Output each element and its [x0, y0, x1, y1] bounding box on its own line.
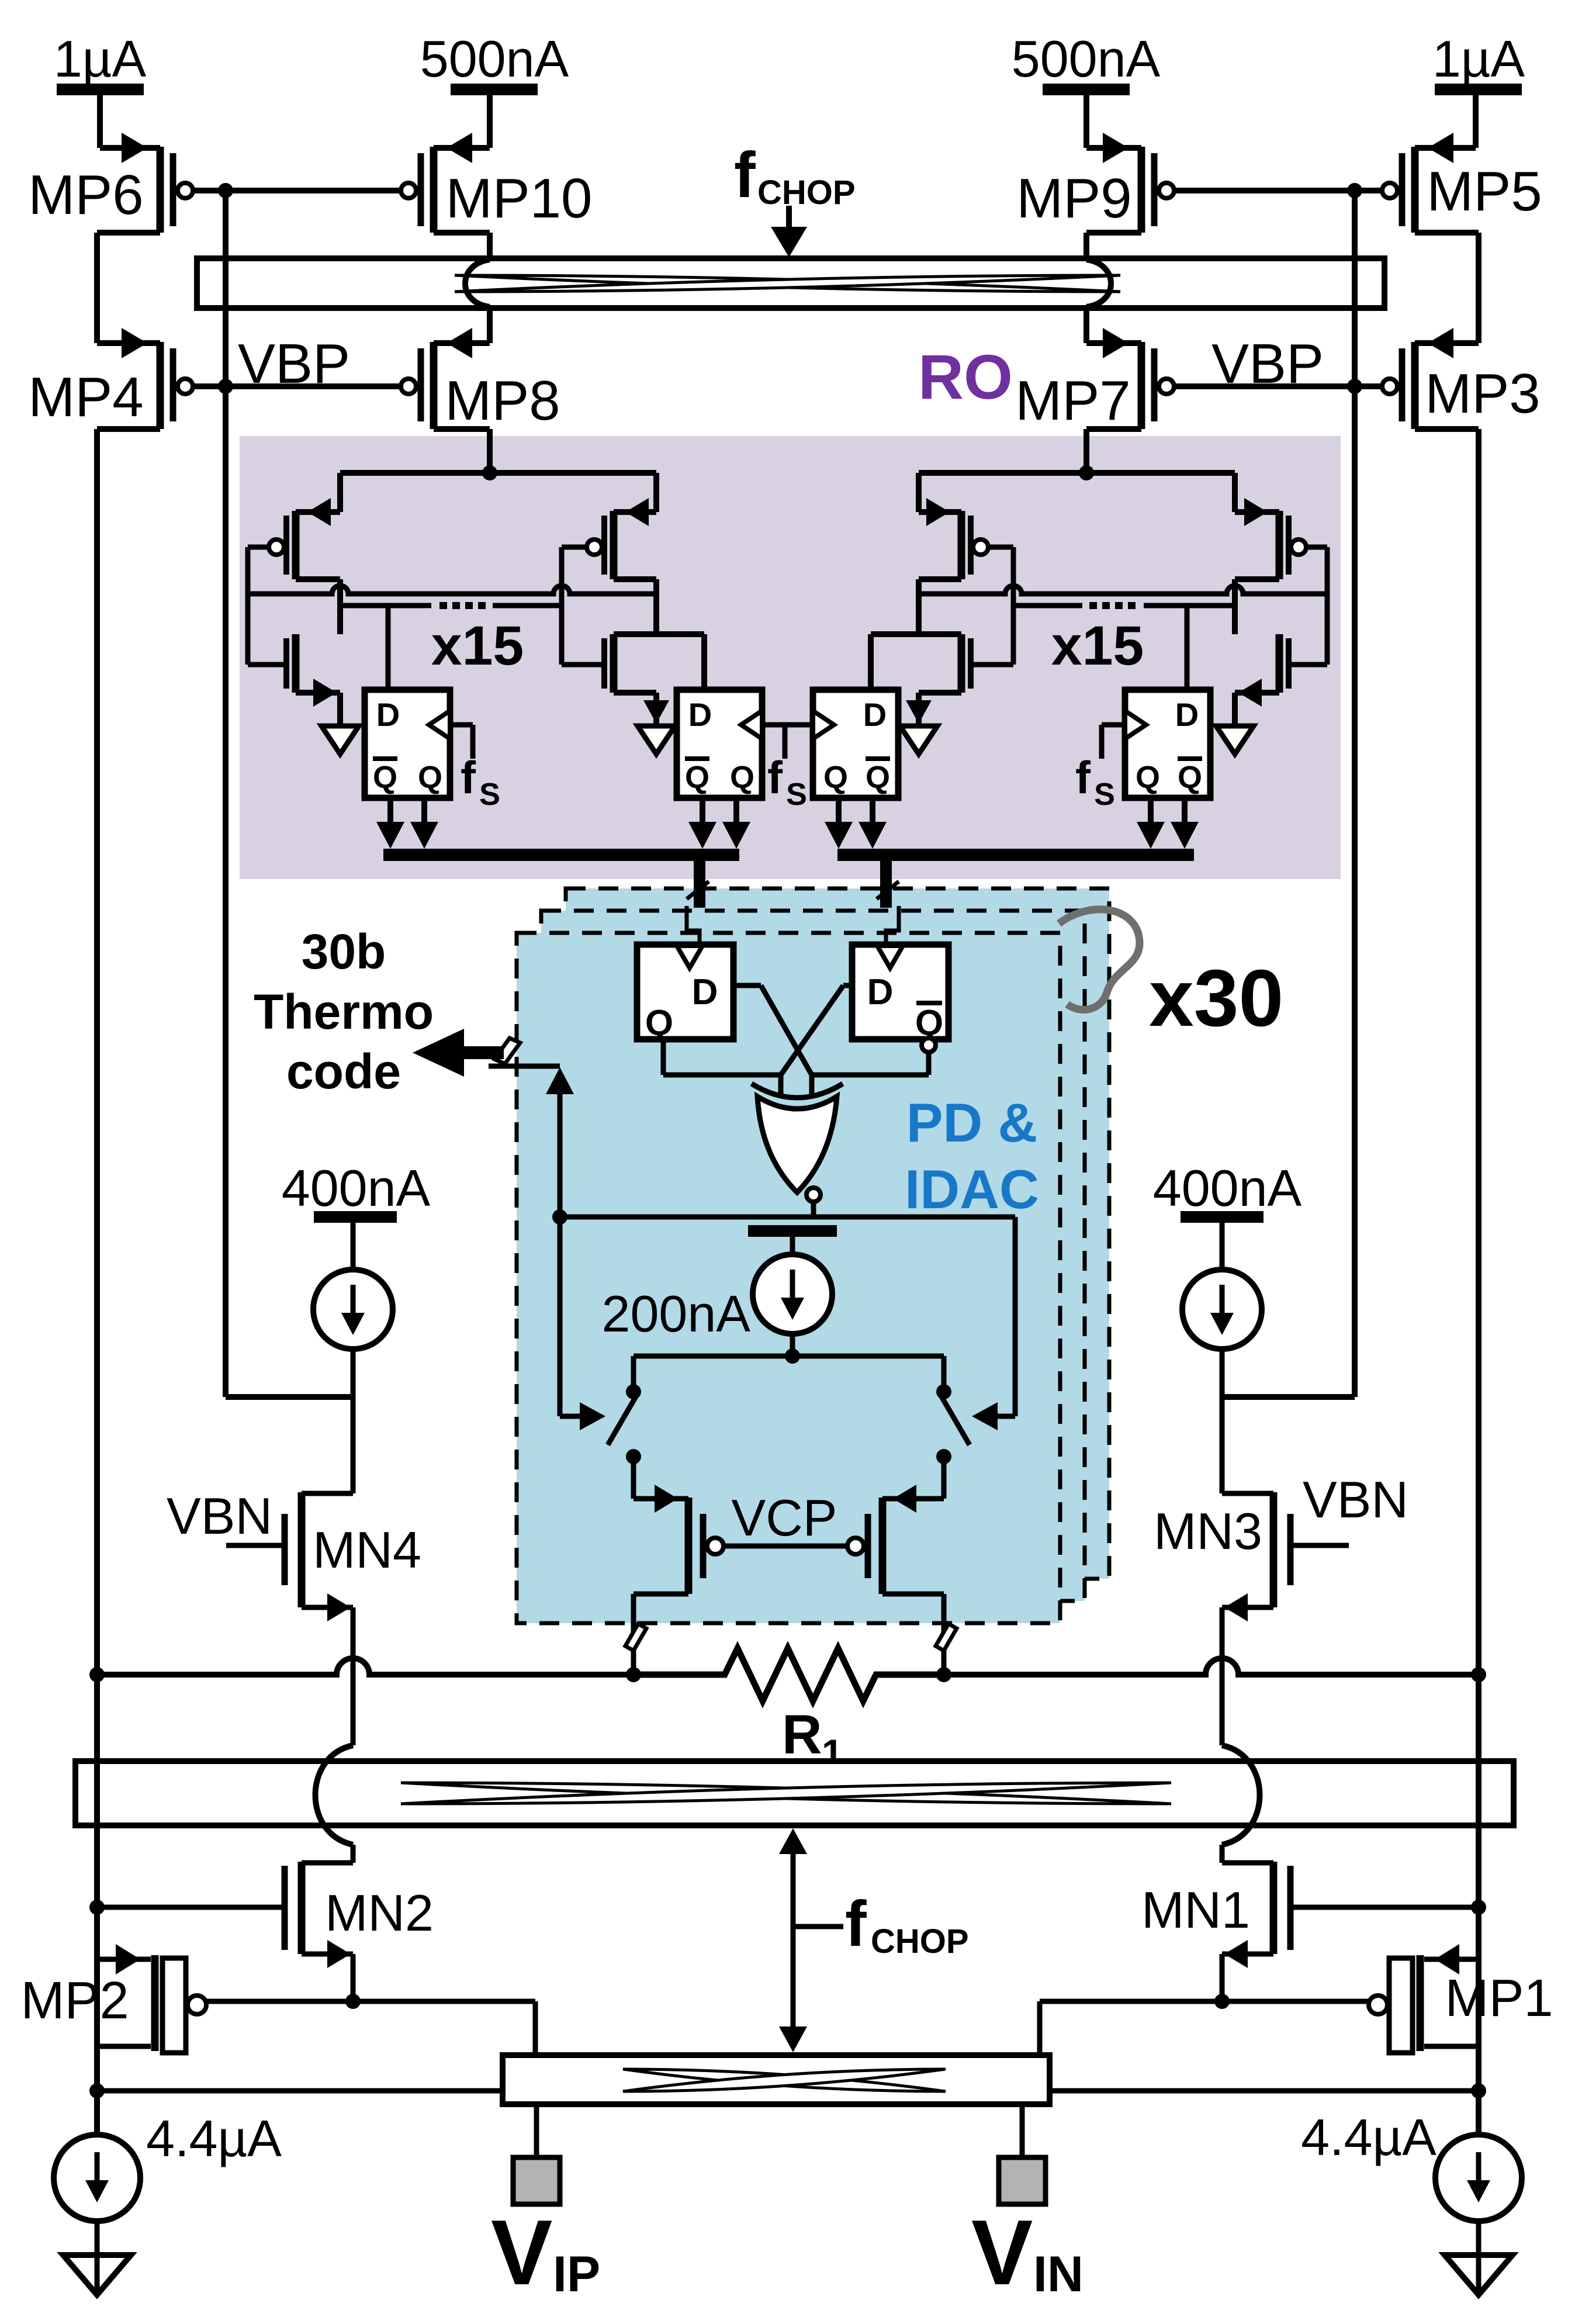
- VBP net right with junction: [1174, 383, 1382, 389]
- svg-text:MP2: MP2: [20, 1972, 129, 2030]
- inv2r NMOS source arrow: [906, 700, 932, 724]
- MP1 source wire from rail: [1424, 1957, 1479, 1962]
- transistor MP6: [157, 147, 164, 233]
- svg-text:RO: RO: [918, 341, 1013, 412]
- PD flip-flop box: [852, 945, 949, 1039]
- transistor MN3: [1270, 1492, 1278, 1607]
- PD and IDAC stacked dashed box 3 (back): [566, 888, 1109, 1579]
- transistor MP8: [430, 342, 438, 429]
- svg-text:MP6: MP6: [28, 164, 143, 226]
- svg-text:MP1: MP1: [1445, 1969, 1553, 2028]
- svg-text:MP7: MP7: [1015, 369, 1130, 432]
- wire to 400nA right source: [1220, 1223, 1225, 1271]
- RO inverter PMOS: [292, 511, 300, 579]
- MP8 source arrow: [446, 328, 472, 358]
- VCP right source arrow: [893, 1485, 916, 1513]
- svg-text:VBP: VBP: [1211, 333, 1324, 395]
- R1 row wire left with hop: [97, 1658, 634, 1675]
- svg-text:1µA: 1µA: [54, 30, 147, 88]
- transistor MN1: [1270, 1862, 1278, 1954]
- svg-text:CHOP: CHOP: [871, 1922, 969, 1960]
- bus stub to FF_A clock: [694, 861, 705, 908]
- inv1r NMOS source arrow: [1238, 679, 1262, 707]
- MN3 source down to chopper hop: [1220, 1607, 1225, 1745]
- MP2 gate net to input chopper: [206, 1999, 535, 2004]
- inv2r NMOS drain lead to FF3 D: [871, 631, 961, 637]
- current source 4.4uA right: [1435, 2135, 1522, 2221]
- thermo bus slash: [494, 1038, 520, 1064]
- chopper hop arc right: [1086, 260, 1111, 307]
- svg-text:Q: Q: [418, 760, 442, 795]
- wire 200nA to switch rail: [790, 1334, 795, 1356]
- wire left switch to VCP left source: [631, 1457, 636, 1499]
- svg-text:MN3: MN3: [1154, 1502, 1262, 1560]
- svg-text:D: D: [376, 696, 400, 733]
- current source 200nA: [753, 1254, 832, 1334]
- RO inverter PMOS: [610, 511, 618, 579]
- RO inverter NMOS: [610, 634, 618, 693]
- bias line right through chopper: [1352, 258, 1358, 308]
- svg-text:PD &: PD &: [906, 1092, 1038, 1153]
- wire MP9 drain into chopper hop: [1086, 230, 1141, 236]
- svg-text:V: V: [971, 2201, 1033, 2304]
- svg-text:MP9: MP9: [1016, 167, 1131, 230]
- RO inverter input wire: [988, 545, 1013, 550]
- flip-flop clock triangle: [813, 711, 834, 739]
- wire MP3 drain down right rail: [1415, 426, 1479, 432]
- transistor MN4: [298, 1492, 306, 1607]
- svg-text:D: D: [1175, 696, 1199, 733]
- flip-flop clock triangle: [429, 711, 450, 739]
- wire to VIN pad: [1020, 2104, 1025, 2157]
- MN4 gate stub VBN: [226, 1543, 282, 1548]
- svg-text:V: V: [491, 2201, 552, 2304]
- RO inverter PMOS drain lead: [296, 576, 340, 582]
- svg-text:IDAC: IDAC: [905, 1158, 1039, 1220]
- RO right feedback line with hops: [919, 586, 1327, 594]
- supply bar 400nA right: [1181, 1211, 1264, 1223]
- FF2 output wires and arrows: [700, 798, 705, 824]
- svg-text:Q: Q: [1136, 760, 1160, 795]
- FF3 output wires and arrows: [836, 798, 842, 824]
- RO inverter PMOS source lead: [1232, 473, 1238, 512]
- ground right: [1445, 2255, 1512, 2295]
- transistor MP10: [430, 147, 438, 233]
- R1 row wire right with hop: [944, 1658, 1479, 1675]
- svg-text:R: R: [782, 1704, 822, 1766]
- MN1 source arrow: [1224, 1940, 1248, 1968]
- gate net MP6-MP10 with junction: [193, 188, 401, 193]
- right rail through chopper: [1476, 1758, 1481, 1828]
- RO inverter ground: [900, 726, 937, 754]
- svg-text:S: S: [1094, 777, 1115, 812]
- MN2 source arrow: [327, 1940, 351, 1968]
- RO inverter NMOS: [958, 634, 965, 693]
- svg-text:Q: Q: [685, 760, 709, 795]
- FF1 clock stub fS: [450, 722, 473, 728]
- input chopper box: [503, 2055, 1050, 2104]
- flip-flop box: [677, 690, 762, 798]
- wire 400nA right to MN3 drain: [1220, 1349, 1225, 1493]
- MP1 gate net to input chopper: [1040, 1999, 1369, 2004]
- transistor VCP left: [685, 1498, 693, 1594]
- current source 4.4uA left: [54, 2135, 140, 2221]
- wire right switch to VCP right source: [941, 1457, 947, 1499]
- RO inverter PMOS drain lead: [1235, 576, 1279, 582]
- RO left chain line with dots: [340, 603, 431, 608]
- RO inverter input wire: [248, 545, 269, 550]
- wire MP10 source from 500nA bar: [487, 95, 493, 148]
- MP2 source wire from rail: [97, 1957, 151, 1962]
- thermo output up arrow: [546, 1067, 574, 1094]
- PD FF B Qbar bubble: [922, 1038, 936, 1052]
- PD cross-coupling net 1: [661, 1039, 666, 1075]
- gate net MP9-MP5 with junction: [1174, 188, 1382, 193]
- svg-text:30b: 30b: [302, 924, 386, 979]
- RO inverter NMOS source lead to ground: [296, 690, 340, 696]
- svg-text:MN1: MN1: [1141, 1881, 1250, 1939]
- wire 4.4uA left to ground: [95, 2221, 100, 2290]
- RO inverter ground: [321, 726, 359, 754]
- svg-text:Thermo: Thermo: [254, 984, 434, 1039]
- MN3 gate stub VBN: [1293, 1543, 1349, 1548]
- bus stub to FF_B clock: [880, 861, 892, 908]
- VCP left drain bus slash: [625, 1624, 646, 1651]
- MN4 source arrow: [327, 1593, 351, 1621]
- svg-text:4.4µA: 4.4µA: [146, 2109, 282, 2167]
- RO right chain line with dots: [1013, 603, 1082, 608]
- transistor MP2: [151, 1955, 159, 2051]
- flip-flop box: [813, 690, 898, 798]
- svg-text:D: D: [692, 972, 718, 1012]
- svg-text:500nA: 500nA: [1012, 30, 1161, 88]
- right rail to input chopper side: [1050, 2088, 1479, 2094]
- RO inverter NMOS: [292, 634, 300, 693]
- supply bar 500nA left: [451, 84, 538, 95]
- svg-text:Q: Q: [730, 760, 754, 795]
- switch rail: [634, 1354, 944, 1359]
- svg-text:400nA: 400nA: [1153, 1159, 1302, 1217]
- transistor MP4: [157, 342, 164, 429]
- MP7 source arrow: [1103, 328, 1129, 358]
- MP1 drain wire to rail: [1424, 2044, 1479, 2049]
- pad VIN: [999, 2157, 1046, 2204]
- wire MP5 source from 1uA bar: [1473, 95, 1479, 148]
- FF4 D input wire: [1185, 606, 1190, 690]
- MN1 source wire: [1222, 1952, 1273, 1957]
- svg-text:D: D: [688, 696, 712, 733]
- PD cross-coupling net 2: [926, 1052, 932, 1075]
- flip-flop box: [1125, 690, 1210, 798]
- MN2 source down to gate net: [351, 1954, 356, 2001]
- left switch control wire: [558, 1217, 563, 1416]
- svg-text:500nA: 500nA: [420, 30, 569, 88]
- XOR output bubble: [806, 1188, 821, 1202]
- MP2 source arrow: [116, 1944, 140, 1974]
- right switch: [941, 1356, 947, 1386]
- svg-text:CHOP: CHOP: [757, 174, 856, 212]
- wire MP4 drain down left rail: [97, 426, 160, 432]
- RO inverter PMOS: [958, 511, 965, 579]
- svg-text:MP5: MP5: [1427, 160, 1542, 223]
- MP3 source arrow: [1428, 328, 1453, 358]
- thermo code output wire: [489, 1064, 560, 1069]
- RO inverter NMOS source lead to ground: [919, 690, 961, 696]
- inv2 NMOS source arrow: [643, 700, 669, 724]
- svg-text:Q: Q: [373, 760, 397, 795]
- wire to 400nA left source: [351, 1223, 356, 1271]
- MP10 source arrow: [446, 133, 472, 163]
- VCP right drain wire: [882, 1592, 944, 1597]
- transistor MP1: [1417, 1955, 1424, 2051]
- VCP left source arrow: [655, 1485, 678, 1513]
- wire chopper to MP7 source: [1084, 307, 1089, 343]
- svg-text:4.4µA: 4.4µA: [1301, 2108, 1436, 2166]
- VCP left drain wire: [634, 1592, 688, 1597]
- wire 4.4uA right to ground: [1476, 2221, 1481, 2290]
- RO inverter PMOS source lead: [653, 473, 659, 512]
- svg-text:D: D: [863, 696, 887, 733]
- transistor MP5: [1411, 147, 1419, 233]
- svg-text:Q: Q: [1178, 760, 1202, 795]
- svg-text:IP: IP: [553, 2246, 600, 2302]
- wire MP8 drain to RO rail: [434, 426, 490, 432]
- PD flip-flop box: [637, 945, 733, 1039]
- bottom chopper hop arc left: [316, 1745, 354, 1845]
- thermometer bus right: [837, 849, 1194, 861]
- resistor R1: [634, 1648, 944, 1701]
- svg-text:VCP: VCP: [732, 1489, 837, 1547]
- fCHOP top arrow: [786, 206, 792, 231]
- svg-text:400nA: 400nA: [282, 1159, 431, 1217]
- inv2 NMOS drain lead to FF2 D: [614, 631, 704, 637]
- RO left feedback line with hops: [248, 586, 656, 594]
- FF1 output wires and arrows: [387, 798, 393, 824]
- RO inverter PMOS drain lead: [919, 576, 961, 582]
- svg-text:f: f: [767, 752, 783, 803]
- chopper hop arc left: [465, 260, 490, 307]
- bottom chopper box: [75, 1761, 1514, 1825]
- transistor MN2: [298, 1862, 306, 1954]
- PD flip-flop clock notch: [877, 946, 903, 968]
- RO inverter ground: [1216, 726, 1254, 754]
- svg-text:IN: IN: [1033, 2246, 1084, 2302]
- VCP gate net: [724, 1544, 847, 1549]
- svg-text:f: f: [845, 1888, 867, 1960]
- supply bar 1uA right: [1435, 84, 1522, 95]
- MN3 source arrow: [1224, 1593, 1248, 1621]
- MN1 source down to gate net: [1220, 1954, 1225, 2001]
- RO right supply rail: [919, 470, 1235, 476]
- wire 400nA left to MN4 drain: [351, 1349, 356, 1493]
- PD flip-flop clock notch: [677, 946, 702, 968]
- svg-text:S: S: [479, 777, 500, 812]
- VBP net left with junction: [193, 383, 401, 389]
- bias line VBP right vertical to MN3 drain: [1352, 191, 1358, 1397]
- RO inverter PMOS source lead: [337, 473, 343, 512]
- svg-text:code: code: [286, 1044, 401, 1099]
- chopper hop arc left redraw: [465, 260, 490, 307]
- RO block shaded region: [240, 436, 1341, 879]
- bias line VBP left vertical to MN4 drain: [223, 191, 229, 1397]
- RO inverter input wire: [1306, 545, 1327, 550]
- MP2 drain wire to rail: [97, 2044, 151, 2049]
- brace decoration gray: [1059, 909, 1140, 1010]
- MN2 source wire: [302, 1952, 353, 1957]
- RO inverter NMOS source lead to ground: [614, 690, 656, 696]
- thermo code big arrow: [463, 1046, 504, 1059]
- svg-text:VBP: VBP: [238, 333, 350, 395]
- inv1 NMOS source arrow: [313, 679, 337, 707]
- MP6 source arrow: [122, 133, 147, 163]
- MN4 source wire: [302, 1605, 353, 1610]
- svg-text:1µA: 1µA: [1432, 30, 1525, 88]
- MN4 source down to chopper hop: [351, 1607, 356, 1745]
- wire MP6 drain to MP4 source: [97, 230, 160, 236]
- FF4 clock stub fS: [1102, 722, 1125, 728]
- svg-text:Q: Q: [823, 760, 848, 795]
- fCHOP bottom double arrow: [791, 1850, 796, 2029]
- svg-text:MP4: MP4: [28, 366, 143, 428]
- bias line left through chopper: [223, 258, 229, 308]
- svg-text:200nA: 200nA: [602, 1285, 751, 1343]
- pad VIP: [513, 2157, 560, 2204]
- svg-text:MN4: MN4: [313, 1521, 421, 1579]
- svg-text:x30: x30: [1149, 953, 1283, 1043]
- flip-flop clock triangle: [741, 711, 762, 739]
- right switch control wire: [1013, 1217, 1018, 1416]
- supply bar 1uA left: [57, 84, 144, 95]
- flip-flop box: [365, 690, 450, 798]
- wire MP6 source from 1uA bar: [97, 95, 103, 148]
- transistor VCP right: [879, 1498, 887, 1594]
- FF2-FF3 clock net fS: [762, 722, 813, 728]
- svg-text:f: f: [1075, 752, 1091, 803]
- flip-flop clock triangle: [1125, 711, 1146, 739]
- MN3 source wire: [1222, 1605, 1273, 1610]
- wire chopper to MP8 source: [487, 307, 493, 343]
- RO left supply rail: [340, 470, 656, 476]
- RO inverter PMOS: [1276, 511, 1283, 579]
- svg-text:f: f: [734, 139, 756, 211]
- transistor MP9: [1138, 147, 1145, 233]
- FF1 D input wire: [386, 606, 391, 690]
- XOR gate: [757, 1097, 837, 1192]
- svg-text:Q: Q: [866, 760, 890, 795]
- svg-text:x15: x15: [431, 615, 524, 677]
- current source 400nA right: [1182, 1270, 1262, 1349]
- left switch: [631, 1356, 636, 1386]
- XOR output wire: [811, 1201, 816, 1217]
- svg-text:MP10: MP10: [446, 167, 593, 230]
- wire to VIP pad: [534, 2104, 539, 2157]
- PD and IDAC stacked dashed box 2 (middle): [541, 911, 1085, 1601]
- RO inverter NMOS source lead to ground: [1235, 690, 1279, 696]
- IDAC supply bar: [748, 1225, 837, 1237]
- MP1 source arrow: [1435, 1944, 1459, 1974]
- svg-text:f: f: [461, 752, 476, 803]
- transistor MP3: [1411, 342, 1419, 429]
- ground left: [63, 2255, 131, 2295]
- MP5 source arrow: [1428, 133, 1453, 163]
- thermometer bus left: [383, 849, 739, 861]
- left rail through chopper: [94, 1758, 100, 1828]
- svg-text:VBN: VBN: [167, 1487, 272, 1545]
- svg-text:Q: Q: [645, 1003, 673, 1043]
- supply bar 400nA left: [314, 1211, 397, 1223]
- wire supply bar to 200nA source: [790, 1237, 795, 1254]
- bottom chopper hop arc right: [1222, 1745, 1260, 1845]
- svg-text:S: S: [786, 777, 807, 812]
- RO inverter ground: [638, 726, 675, 754]
- wire MP9 source from 500nA bar: [1084, 95, 1089, 148]
- transistor MP7: [1138, 342, 1145, 429]
- svg-text:VBN: VBN: [1303, 1471, 1408, 1528]
- PD and IDAC stacked dashed box 1 (front): [517, 933, 1060, 1623]
- wire hop to MN2 drain: [351, 1845, 356, 1863]
- chopper hop arc right redraw: [1086, 260, 1111, 307]
- bottom chopper twisted pair: [401, 1783, 1171, 1804]
- wire MP7 drain to RO rail: [1086, 426, 1141, 432]
- svg-text:MP8: MP8: [445, 369, 560, 432]
- bottom chopper hop arcs redraw: [316, 1745, 354, 1845]
- top chopper box: [197, 258, 1384, 308]
- fCHOP bottom label stub: [793, 1924, 843, 1929]
- svg-text:MP3: MP3: [1425, 362, 1540, 425]
- wire MP5 drain to MP3 source: [1415, 230, 1479, 236]
- MP9 source arrow: [1103, 133, 1129, 163]
- phase detector output net: [560, 1215, 1015, 1220]
- VCP right drain bus slash: [936, 1624, 957, 1651]
- left rail to input chopper side: [97, 2088, 503, 2094]
- FF4 output wires and arrows: [1148, 798, 1154, 824]
- MN2 gate wire to left rail: [97, 1905, 282, 1910]
- current source 400nA left: [313, 1270, 393, 1349]
- RO inverter PMOS drain lead: [614, 576, 656, 582]
- top chopper twisted pair: [455, 275, 1120, 292]
- wire hop to MN1 drain: [1220, 1845, 1225, 1863]
- MN1 gate wire to right rail: [1293, 1905, 1479, 1910]
- svg-text:x15: x15: [1051, 615, 1144, 677]
- input chopper twisted pair: [623, 2069, 946, 2091]
- MP4 source arrow: [122, 328, 147, 358]
- wire MP10 drain into chopper hop: [434, 230, 490, 236]
- svg-text:D: D: [867, 972, 894, 1012]
- RO inverter input wire: [562, 545, 587, 550]
- svg-text:MN2: MN2: [325, 1884, 434, 1942]
- supply bar 500nA right: [1043, 84, 1130, 95]
- RO inverter NMOS: [1276, 634, 1283, 693]
- RO inverter PMOS source lead: [916, 473, 922, 512]
